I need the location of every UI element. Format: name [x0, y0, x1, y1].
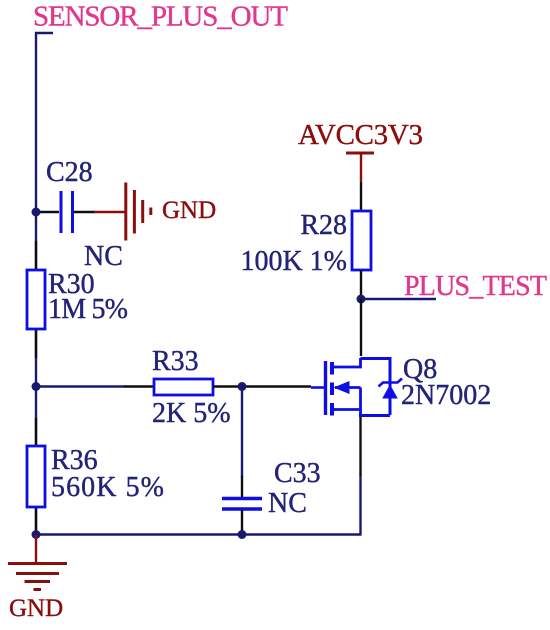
ground GND2 symbol	[8, 564, 67, 590]
svg-text:NC: NC	[268, 488, 307, 519]
resistor R33 body	[154, 379, 213, 395]
svg-text:NC: NC	[84, 241, 123, 272]
Q8 channel segment top	[330, 362, 334, 375]
wire PLUS_TEST stub	[361, 298, 436, 300]
resistor R30 body	[27, 270, 45, 329]
pin R28 pin1 (black)	[360, 182, 362, 211]
Q8 gate bar	[324, 361, 327, 415]
pin R36 pin2 (black)	[35, 507, 37, 534]
svg-text:2K 5%: 2K 5%	[152, 398, 231, 429]
Q8 top rail	[361, 357, 391, 360]
node B junction dot (C28 tap)	[32, 208, 41, 217]
pin R30 pin1 (black)	[35, 241, 37, 270]
svg-text:PLUS_TEST: PLUS_TEST	[404, 271, 547, 302]
wire mid horizontal (node C to R33)	[36, 385, 125, 387]
Q8 gate pin	[311, 386, 324, 389]
svg-text:560K 5%: 560K 5%	[51, 472, 164, 503]
capacitor C33 plates	[222, 499, 262, 510]
svg-text:GND: GND	[9, 595, 63, 622]
capacitor C28 plates	[61, 191, 73, 233]
Q8 channel segment bottom	[330, 403, 334, 416]
Q8 source link	[333, 408, 361, 411]
ground GND2 stem	[35, 535, 37, 563]
pin C33 pin1 (black)	[241, 476, 243, 497]
pin R36 pin1 (black)	[35, 418, 37, 446]
svg-text:C33: C33	[274, 458, 321, 489]
pin C28 pin1 (black)	[36, 211, 59, 213]
pin C33 pin2 (black)	[241, 510, 243, 533]
pin R30 pin2 (black)	[35, 329, 37, 358]
wire gate run (black)	[242, 385, 311, 387]
power AVCC3V3 stem	[360, 153, 362, 182]
resistor R28 body	[352, 211, 371, 270]
node G junction dot (PLUS_TEST tap)	[357, 295, 366, 304]
pin C28 pin2 (black)	[74, 211, 95, 213]
wire source riser (navy)	[359, 475, 361, 535]
resistor R36 body	[27, 446, 45, 507]
Q8 channel segment middle	[330, 383, 334, 396]
svg-text:C28: C28	[46, 157, 93, 188]
svg-text:GND: GND	[162, 197, 216, 224]
pin R28 pin2 (black)	[360, 270, 362, 299]
svg-text:2N7002: 2N7002	[401, 380, 491, 411]
svg-text:AVCC3V3: AVCC3V3	[298, 119, 423, 151]
Q8 drain link	[333, 358, 361, 367]
pin R33 pin2 (black)	[213, 385, 242, 387]
transistor Q8 MOSFET symbol	[311, 357, 402, 416]
wire GND1 lead (dark red)	[94, 211, 126, 213]
node F junction dot (C33 bottom)	[238, 530, 247, 539]
svg-text:R28: R28	[300, 210, 347, 241]
svg-text:1M 5%: 1M 5%	[48, 294, 128, 325]
Q8 bottom rail	[359, 414, 390, 417]
node E junction dot (R33/C33)	[238, 382, 247, 391]
Q8 body line	[335, 386, 361, 389]
wire E to C33 vertical (navy)	[241, 387, 243, 478]
Q8 body diode cathode bar	[379, 379, 403, 387]
wire source vertical (black)	[359, 417, 361, 476]
wire top stub under SENSOR_PLUS_OUT	[35, 32, 53, 34]
svg-text:R33: R33	[152, 346, 199, 377]
node C junction dot (left mid)	[32, 382, 41, 391]
pin R33 pin1 (black)	[124, 385, 154, 387]
node D junction dot (bottom left)	[32, 530, 41, 539]
Q8 body arrow head	[334, 381, 350, 394]
Q8 body diode anode triangle	[382, 385, 398, 399]
wire bottom horizontal	[36, 533, 362, 535]
svg-text:SENSOR_PLUS_OUT: SENSOR_PLUS_OUT	[33, 1, 288, 33]
ground GND1 sideways symbol	[126, 183, 151, 241]
Q8 right rail with diode vertical	[389, 357, 392, 415]
wire left vertical main	[35, 32, 37, 535]
svg-text:100K 1%: 100K 1%	[240, 246, 347, 277]
Q8 body link vertical	[359, 388, 362, 416]
wire drain vertical (black)	[360, 299, 362, 356]
power AVCC3V3 bar	[346, 152, 374, 155]
